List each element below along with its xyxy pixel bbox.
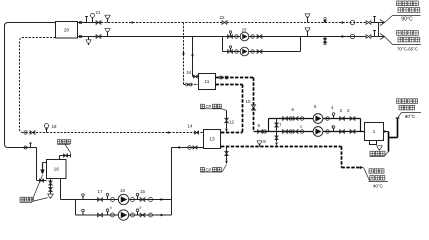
svg-text:1: 1: [373, 129, 376, 135]
svg-text:9: 9: [258, 123, 261, 128]
svg-text:14: 14: [188, 124, 193, 129]
svg-text:70°C-65°C: 70°C-65°C: [397, 46, 418, 51]
svg-text:22: 22: [220, 15, 225, 20]
svg-text:16: 16: [54, 167, 60, 173]
svg-text:12: 12: [229, 120, 234, 125]
svg-text:8: 8: [263, 139, 266, 144]
svg-text:17: 17: [98, 189, 103, 194]
svg-text:CP: CP: [206, 104, 212, 109]
svg-text:6: 6: [292, 107, 295, 112]
svg-text:9: 9: [140, 206, 142, 210]
svg-text:11: 11: [205, 79, 210, 85]
svg-text:23: 23: [242, 28, 247, 33]
svg-text:9: 9: [110, 206, 112, 210]
svg-text:90°C: 90°C: [405, 114, 416, 120]
svg-text:15: 15: [140, 189, 145, 194]
svg-text:5: 5: [314, 104, 317, 109]
svg-text:7: 7: [279, 123, 282, 128]
svg-text:21: 21: [96, 10, 101, 15]
svg-text:3: 3: [340, 108, 343, 113]
svg-text:13: 13: [209, 137, 215, 143]
svg-text:9: 9: [300, 125, 302, 129]
svg-text:24: 24: [187, 70, 192, 75]
svg-text:16: 16: [120, 188, 125, 193]
svg-text:4: 4: [331, 105, 334, 110]
svg-text:9: 9: [332, 125, 334, 129]
svg-text:10: 10: [246, 99, 251, 104]
svg-text:90°C: 90°C: [401, 17, 413, 23]
svg-text:18: 18: [52, 124, 57, 129]
svg-text:40°C: 40°C: [373, 184, 384, 189]
svg-text:20: 20: [64, 27, 70, 33]
svg-text:2: 2: [347, 108, 350, 113]
